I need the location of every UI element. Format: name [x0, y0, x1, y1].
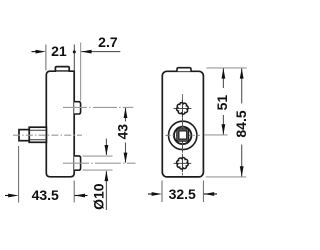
square spindle hole inner	[179, 131, 187, 139]
spline groove line upper	[30, 129, 46, 131]
tab top extension line (right)	[207, 67, 247, 69]
dim diameter-10 line upper segment with down arrow	[105, 139, 107, 156]
dim 43.5 left extension line (spindle tip)	[18, 146, 20, 203]
top nub on body right edge	[74, 102, 80, 114]
top nub centerline / 43-dim upper extension line	[63, 106, 133, 108]
bottom screw hole (serrated)	[177, 158, 188, 169]
dim 43.5 right extension line (body right edge)	[73, 181, 75, 203]
dim 21 dot terminator	[73, 50, 76, 53]
dim 43 line with outward arrows	[125, 108, 127, 122]
spindle tip	[19, 130, 29, 141]
bottom screw hole crosshair	[174, 162, 192, 164]
top screw hole crosshair	[174, 107, 192, 109]
square spindle hole outer	[177, 129, 189, 141]
dim 32.5 right arrow	[204, 193, 217, 195]
spline groove line lower	[30, 139, 46, 141]
svg-text:2.7: 2.7	[98, 34, 118, 50]
svg-text:Ø10: Ø10	[90, 183, 106, 210]
body bottom extension line (right)	[206, 176, 247, 178]
side view tab inner line	[55, 70, 69, 72]
dim 21 left arrow	[32, 51, 42, 53]
spindle splined shaft	[29, 127, 46, 142]
dim 43.5 right arrow	[75, 195, 88, 197]
dim diameter-10 line lower segment with up arrow	[105, 171, 107, 210]
bottom nub on body right edge (diameter 10)	[74, 156, 80, 170]
svg-text:84.5: 84.5	[233, 110, 249, 137]
svg-text:43: 43	[114, 124, 130, 140]
svg-text:21: 21	[51, 43, 67, 59]
vertical centerline through holes	[182, 94, 184, 176]
spindle boss inner circle	[174, 127, 191, 144]
diameter-10 extension line from nub bottom edge	[83, 169, 113, 171]
main horizontal centerline of spindle	[13, 134, 82, 136]
dim 2.7 extension line (nub right edge, extended up)	[80, 43, 82, 101]
svg-text:51: 51	[214, 95, 230, 111]
dim 32.5 left arrow	[148, 193, 157, 195]
dim 84.5 line with arrows	[241, 68, 243, 103]
boss crosshair	[166, 134, 200, 136]
boss center extension line (right)	[205, 134, 228, 136]
dim 2.7 arrow and tail	[81, 51, 120, 53]
top screw hole (serrated)	[177, 103, 189, 115]
dim 21 right extension line with dot terminator	[73, 45, 75, 71]
side view body	[46, 67, 74, 177]
svg-text:43.5: 43.5	[32, 187, 59, 203]
dim 21 left extension line	[45, 45, 47, 71]
spindle boss outer circle	[169, 121, 197, 149]
bottom nub centerline / 43-dim lower extension line	[63, 162, 136, 164]
front view body plate	[162, 71, 203, 177]
dim 32.5 right extension line	[202, 181, 204, 203]
diameter-10 extension line from nub top edge	[83, 155, 113, 157]
dim 43.5 left arrow	[5, 195, 14, 197]
svg-text:32.5: 32.5	[169, 186, 196, 202]
dim 51 line with arrows	[222, 68, 224, 88]
front view tab	[177, 68, 191, 72]
dim 32.5 left extension line	[161, 181, 163, 203]
